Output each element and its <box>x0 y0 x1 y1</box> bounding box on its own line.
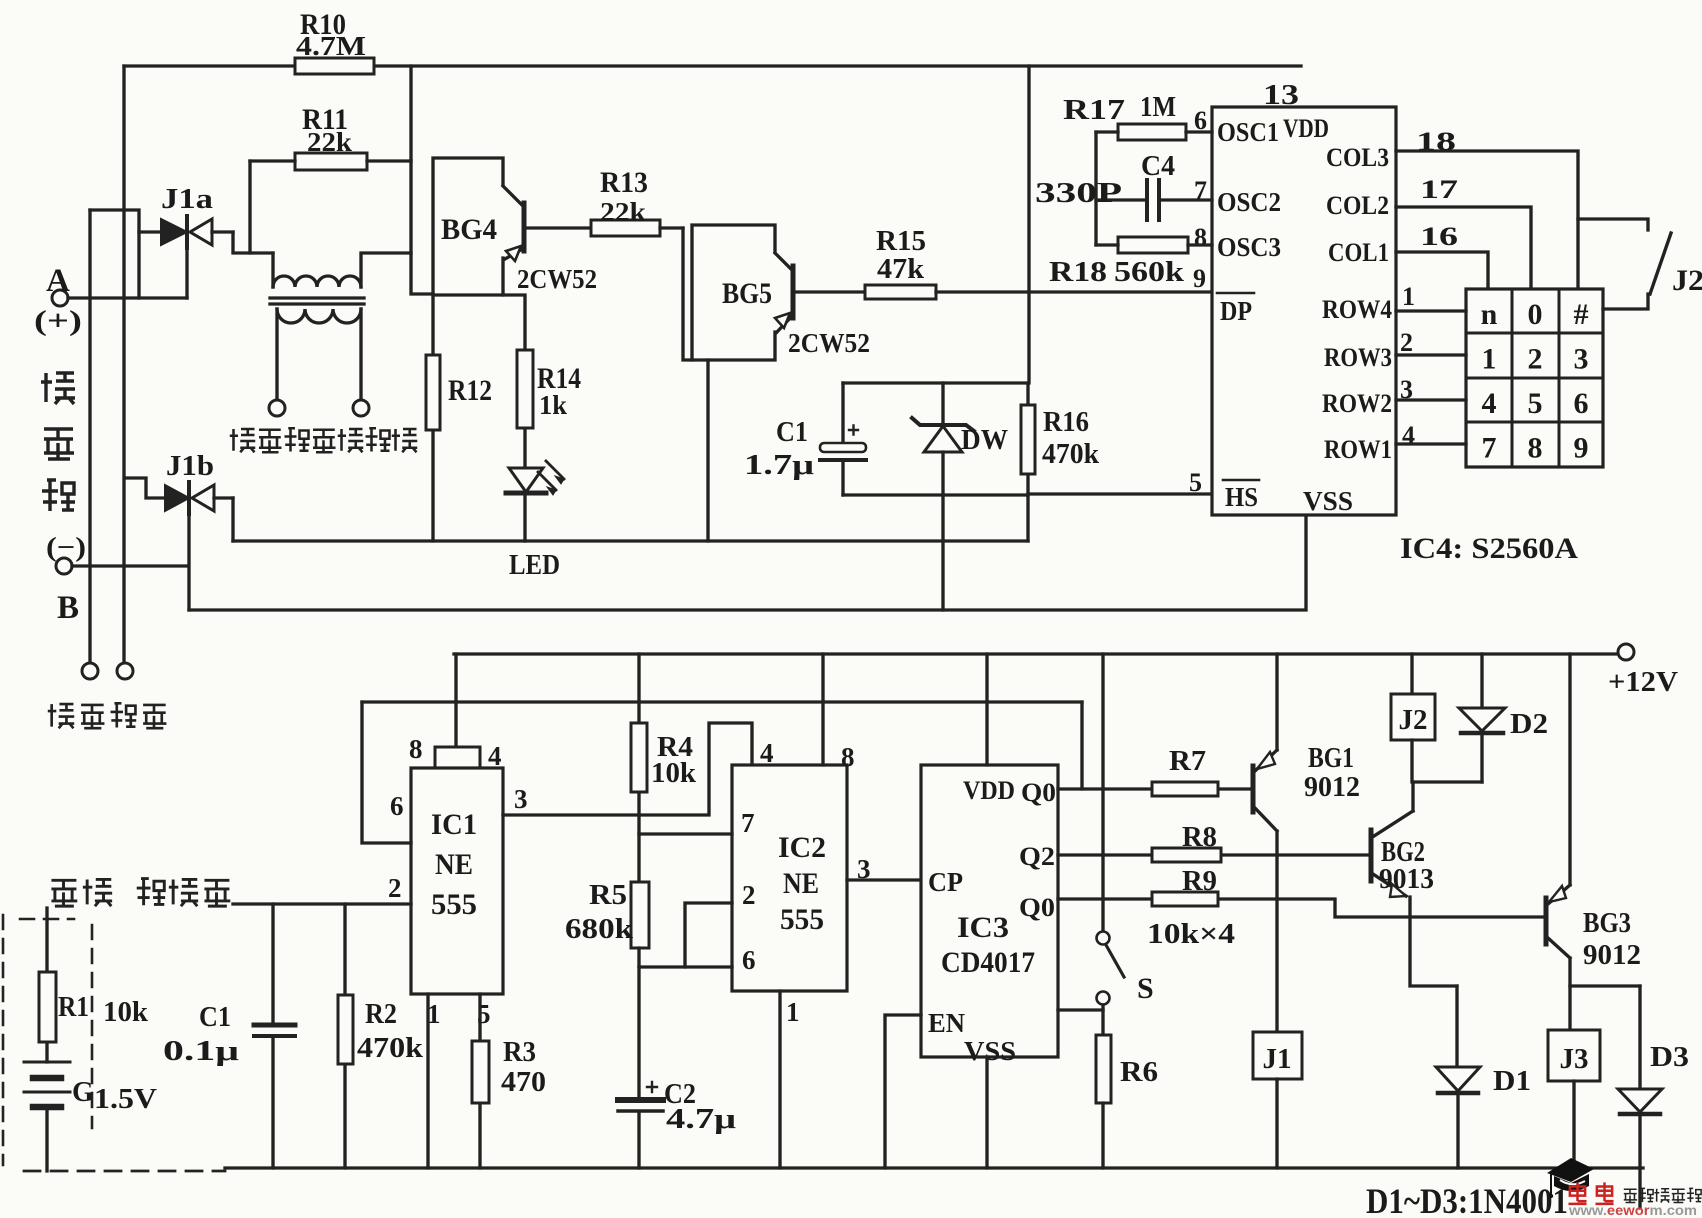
watermark: 虫虫 red characters <box>1568 1182 1613 1204</box>
svg-text:(+): (+) <box>34 305 82 337</box>
svg-text:1M: 1M <box>1140 92 1176 123</box>
resistor R16 <box>1021 383 1099 541</box>
transistor BG3 9012 <box>1546 654 1641 1030</box>
resistor R11 <box>250 103 411 170</box>
pin 5 label of IC1 <box>477 999 491 1029</box>
capacitor C2 4.7u (electrolytic) <box>618 1079 736 1168</box>
svg-text:IC2: IC2 <box>778 831 826 864</box>
wire: IC2 pin 3 to IC3 CP <box>847 878 921 881</box>
svg-text:R9: R9 <box>1182 866 1217 897</box>
pin 7 label of IC2 <box>741 808 755 838</box>
svg-text:J2: J2 <box>1399 704 1428 736</box>
svg-text:R8: R8 <box>1182 822 1217 853</box>
wire: IC3 reset stub to switch S <box>1058 1008 1103 1011</box>
pin 4 label of IC4 <box>1402 421 1415 450</box>
diode D2 <box>1459 654 1548 782</box>
svg-text:1.7μ: 1.7μ <box>744 450 814 481</box>
svg-text:J2: J2 <box>1672 264 1702 297</box>
wire: COL3 to keypad column 3 <box>1396 151 1578 288</box>
wire: IC1 pin 6 from secondary rail <box>362 702 411 843</box>
svg-text:9013: 9013 <box>1379 863 1434 895</box>
pin 17 label of IC4 <box>1420 175 1458 204</box>
terminal +12V <box>1608 644 1678 698</box>
svg-text:NE: NE <box>435 848 473 881</box>
wire: VSS return line to IC4 <box>189 515 1306 610</box>
svg-text:8: 8 <box>841 742 855 772</box>
capacitor C1 1.7u (electrolytic) <box>744 383 866 495</box>
svg-text:R5: R5 <box>589 880 627 911</box>
svg-text:R16: R16 <box>1043 407 1089 438</box>
svg-text:9012: 9012 <box>1304 771 1360 803</box>
dashed enclosure: 附件 accessory box <box>3 915 225 1171</box>
svg-text:J3: J3 <box>1560 1043 1589 1075</box>
resistor R1 <box>39 908 148 1062</box>
pin 1 label of IC4 <box>1402 282 1415 311</box>
svg-text:2: 2 <box>1528 343 1543 376</box>
resistor R12 <box>426 295 492 541</box>
pin 18 label of IC4 <box>1416 127 1456 156</box>
resistor R2 <box>338 904 423 1168</box>
svg-text:R2: R2 <box>365 999 397 1030</box>
transformer T core <box>270 298 364 304</box>
svg-text:1: 1 <box>1482 343 1497 376</box>
label: diode types D1~D3 1N4001 <box>1366 1181 1568 1218</box>
pin 7 label of IC4 <box>1194 176 1207 205</box>
switch S <box>1097 654 1154 1035</box>
resistor R4 <box>631 654 696 882</box>
pin 9 label of IC4 <box>1193 264 1206 293</box>
wire: LED rail (long horizontal) <box>233 539 1028 542</box>
pin 6 label of IC1 <box>390 791 404 821</box>
svg-text:LED: LED <box>509 550 560 581</box>
wire: terminal bracket top and right <box>90 210 139 298</box>
svg-text:ROW2: ROW2 <box>1322 389 1392 418</box>
svg-text:R1: R1 <box>58 992 89 1023</box>
svg-text:C1: C1 <box>199 1002 231 1033</box>
label: 接电话机 (to telephone) <box>48 703 167 728</box>
wire: R13 output down to BG5 box <box>683 228 692 360</box>
wire: +12V supply rail <box>454 652 1618 655</box>
svg-text:0: 0 <box>1528 298 1543 331</box>
resistor R14 <box>503 295 581 468</box>
svg-text:4: 4 <box>760 738 774 768</box>
watermark: 电子下载站 site name <box>1624 1188 1702 1202</box>
svg-text:10k: 10k <box>103 997 148 1028</box>
wire: IC3 EN to ground rail <box>885 1015 921 1168</box>
svg-text:0.1μ: 0.1μ <box>163 1036 239 1067</box>
svg-text:DW: DW <box>961 425 1008 456</box>
svg-text:2: 2 <box>1400 328 1413 357</box>
svg-text:BG1: BG1 <box>1308 742 1354 774</box>
svg-text:6: 6 <box>1574 387 1589 420</box>
wire: alarm line into IC1 pin 2 <box>233 902 411 905</box>
svg-text:ROW4: ROW4 <box>1322 295 1392 324</box>
watermark: graduation cap logo <box>1547 1158 1594 1198</box>
svg-text:C1: C1 <box>776 417 808 448</box>
svg-text:470: 470 <box>501 1067 546 1098</box>
svg-text:22k: 22k <box>600 197 646 227</box>
transformer T primary winding <box>273 253 411 287</box>
capacitor C1 0.1u (alarm filter) <box>163 904 295 1168</box>
wire: J1a output step down to transformer primary <box>233 232 273 253</box>
svg-text:10k: 10k <box>651 758 696 789</box>
svg-text:555: 555 <box>780 903 824 936</box>
wire: Q0 output row <box>1058 787 1251 790</box>
svg-text:COL1: COL1 <box>1328 238 1389 267</box>
svg-text:7: 7 <box>741 808 755 838</box>
svg-text:680k: 680k <box>565 914 633 945</box>
wire: secondary supply rail <box>362 700 1082 703</box>
label: 接线路 (to phone line) vertical text <box>41 373 75 511</box>
svg-text:ROW1: ROW1 <box>1324 435 1392 464</box>
wire: IC2 pin 1 to ground rail <box>778 991 781 1168</box>
resistor R6 <box>1096 1035 1158 1168</box>
relay contact J1b <box>125 450 233 514</box>
wire: IC2 pin 8 to +12V rail <box>821 654 824 765</box>
wire: IC2 pin 6 from R5/C2 node <box>639 965 732 968</box>
svg-text:8: 8 <box>409 734 423 764</box>
svg-text:10k×4: 10k×4 <box>1147 918 1235 950</box>
svg-text:EN: EN <box>928 1008 965 1038</box>
svg-text:6: 6 <box>742 945 756 975</box>
svg-text:3: 3 <box>514 784 528 814</box>
svg-text:BG5: BG5 <box>722 277 772 310</box>
wire: IC3 VSS to ground rail <box>985 1057 988 1168</box>
svg-text:1.5V: 1.5V <box>94 1084 157 1115</box>
svg-text:n: n <box>1481 298 1498 331</box>
svg-text:VDD: VDD <box>963 776 1015 805</box>
wire: snubber top rail <box>843 381 1028 384</box>
svg-text:CP: CP <box>928 867 963 897</box>
svg-text:G: G <box>72 1077 94 1108</box>
wire: COL1 to keypad column 1 <box>1396 252 1488 288</box>
svg-text:VSS: VSS <box>1303 486 1353 516</box>
svg-text:16: 16 <box>1420 222 1458 251</box>
pin 4 label of IC2 <box>760 738 774 768</box>
wire: BG3 collector branch to D3 <box>1570 984 1640 987</box>
relay coil J3 <box>1548 1030 1600 1168</box>
wire: oscillator left bus <box>1094 132 1097 245</box>
svg-text:A: A <box>46 263 70 299</box>
svg-text:J1: J1 <box>1263 1043 1292 1075</box>
wire: vertical bus x=1029 from top line to snubber rail <box>1027 66 1030 383</box>
svg-text:1: 1 <box>1402 282 1415 311</box>
svg-text:R12: R12 <box>448 374 492 407</box>
resistor R15 <box>865 226 936 299</box>
svg-text:2: 2 <box>388 873 402 903</box>
svg-text:B: B <box>57 590 79 626</box>
wire: HS line from R16 node to IC4 pin 5 <box>1028 492 1212 495</box>
pin 8 label of IC2 <box>841 742 855 772</box>
pin 8 label of IC1 <box>409 734 423 764</box>
resistor R8 <box>1152 822 1221 862</box>
IC U1 NE555 <box>411 747 503 994</box>
svg-text:4: 4 <box>488 741 502 771</box>
wire: J1a center tap down to node A line <box>185 248 188 298</box>
keypad matrix <box>1466 289 1603 467</box>
pin 5 label of IC4 <box>1189 468 1202 497</box>
wire: Q0 row branch to secondary rail <box>1080 702 1083 789</box>
svg-text:OSC3: OSC3 <box>1217 232 1281 262</box>
wire: Q0' output row to BG3 base <box>1058 899 1544 917</box>
svg-text:IC3: IC3 <box>957 911 1009 944</box>
transistor BG4 (with outline box) <box>433 158 597 295</box>
svg-text:2CW52: 2CW52 <box>788 328 870 358</box>
svg-text:D1~D3:1N4001: D1~D3:1N4001 <box>1366 1181 1568 1218</box>
pin 6 label of IC4 <box>1194 106 1207 135</box>
svg-text:3: 3 <box>1574 343 1589 376</box>
svg-text:7: 7 <box>1482 432 1497 465</box>
wire: top supply line of dialer section <box>124 64 1301 67</box>
svg-text:5: 5 <box>1528 387 1543 420</box>
relay coil J1 <box>1253 1032 1302 1168</box>
wire: Q2 output row <box>1058 853 1367 856</box>
IC U3 CD4017 <box>921 765 1058 1066</box>
svg-text:8: 8 <box>1528 432 1543 465</box>
svg-text:S: S <box>1137 972 1154 1005</box>
svg-text:470k: 470k <box>1042 439 1099 470</box>
resistor R3 on IC1 pin 5 <box>472 994 546 1168</box>
pin 1 label of IC1 <box>427 999 441 1029</box>
resistor R10 <box>295 8 374 74</box>
label: IC4 part number <box>1400 532 1578 565</box>
transistor BG2 9013 <box>1371 782 1457 986</box>
watermark: site url <box>1568 1202 1697 1218</box>
svg-text:22k: 22k <box>307 127 352 157</box>
svg-text:2CW52: 2CW52 <box>517 264 597 294</box>
svg-text:R13: R13 <box>600 166 648 199</box>
pin 1 label of IC2 <box>786 997 800 1027</box>
label: resistor group value 10k x 4 <box>1147 918 1235 950</box>
wire: BG5 box bottom to LED rail <box>706 360 709 541</box>
svg-text:13: 13 <box>1263 80 1299 111</box>
wire: terminal bracket left vertical (to phone terminal) <box>88 210 91 662</box>
relay contact J1a <box>139 183 233 248</box>
wire: ROW2 to keypad <box>1396 398 1466 401</box>
svg-text:NE: NE <box>783 867 819 900</box>
pin 2 label of IC1 <box>388 873 402 903</box>
wire: snubber bottom rail <box>843 493 1028 496</box>
pin 13 label of IC4 <box>1263 80 1299 111</box>
svg-text:1: 1 <box>786 997 800 1027</box>
svg-text:ROW3: ROW3 <box>1324 343 1392 372</box>
svg-text:1k: 1k <box>539 390 567 420</box>
pin 6 label of IC2 <box>742 945 756 975</box>
svg-text:C4: C4 <box>1141 151 1175 182</box>
svg-text:BG4: BG4 <box>441 213 497 246</box>
svg-text:R18: R18 <box>1049 257 1107 288</box>
svg-text:9012: 9012 <box>1583 939 1641 971</box>
wire: IC1 pin 1 to ground rail <box>426 994 429 1168</box>
svg-text:J1a: J1a <box>161 183 214 215</box>
IC U2 NE555 <box>732 765 847 991</box>
diode D3 <box>1618 986 1689 1208</box>
wire: IC1 pins 8/4 to +12V rail <box>454 654 457 747</box>
wire: IC3 VDD to +12V rail <box>985 654 988 765</box>
svg-text:17: 17 <box>1420 175 1458 204</box>
terminal B <box>46 532 188 626</box>
wire: R11 left lead down to J1a output node <box>248 161 251 253</box>
diode D1 <box>1436 986 1531 1168</box>
svg-text:VSS: VSS <box>964 1036 1016 1066</box>
svg-text:OSC1: OSC1 <box>1217 117 1279 147</box>
svg-text:4.7M: 4.7M <box>296 31 366 61</box>
svg-text:J1b: J1b <box>166 450 214 482</box>
pin 2 label of IC4 <box>1400 328 1413 357</box>
svg-text:4: 4 <box>1482 387 1497 420</box>
wire: IC1 pin 3 to R4 node and IC2 pin 4 <box>503 723 752 815</box>
svg-text:D2: D2 <box>1510 708 1548 740</box>
switch J2 (hook switch) <box>1578 219 1702 309</box>
svg-text:8: 8 <box>1194 223 1207 252</box>
transistor BG5 (with outline box) <box>692 225 870 360</box>
IC U4 S2560A dialer <box>1212 107 1396 516</box>
svg-text:DP: DP <box>1220 296 1252 326</box>
wire: vertical bus x=411 from top line to transformer/BG4 <box>411 66 433 294</box>
wire: COL2 to keypad column 2 <box>1396 207 1531 288</box>
svg-text:R3: R3 <box>503 1037 536 1068</box>
wire: ROW3 to keypad <box>1396 353 1466 356</box>
label: 报警线 (alarm line) <box>137 879 231 907</box>
pin 16 label of IC4 <box>1420 222 1458 251</box>
svg-text:Q2: Q2 <box>1019 842 1055 871</box>
svg-text:HS: HS <box>1225 482 1258 512</box>
svg-text:www.eeworm.com: www.eeworm.com <box>1568 1202 1697 1218</box>
resistor R17 <box>1063 92 1212 140</box>
capacitor C4 330P <box>1035 151 1212 220</box>
svg-text:D1: D1 <box>1493 1065 1531 1097</box>
pin 3 label of IC2 <box>857 854 871 884</box>
svg-text:R15: R15 <box>876 226 926 257</box>
wire: BG5 collector line to IC4 pin 9 (DP) <box>936 290 1212 293</box>
svg-text:COL2: COL2 <box>1326 191 1389 220</box>
wire: ROW1 to keypad <box>1396 442 1466 445</box>
label: 附件 (accessory) <box>51 879 112 906</box>
svg-text:COL3: COL3 <box>1326 143 1389 172</box>
transistor BG1 9012 <box>1253 654 1360 1032</box>
terminal A <box>34 263 187 337</box>
svg-text:VDD: VDD <box>1283 114 1329 143</box>
svg-text:330P: 330P <box>1035 178 1122 209</box>
svg-text:5: 5 <box>1189 468 1202 497</box>
transformer T secondary winding <box>277 309 361 400</box>
wire: ROW4 to keypad <box>1396 309 1466 312</box>
recorder output terminals <box>269 400 369 416</box>
LED indicator <box>506 461 564 581</box>
svg-text:BG3: BG3 <box>1583 907 1631 939</box>
battery G 1.5V <box>24 1062 157 1171</box>
wire: ground rail <box>225 1166 1643 1169</box>
wire: left vertical from top line down through node A to phone terminal <box>122 66 125 662</box>
svg-text:#: # <box>1574 298 1589 331</box>
resistor R7 <box>1152 746 1218 796</box>
svg-text:+12V: +12V <box>1608 666 1678 698</box>
pin 3 label of IC4 <box>1400 375 1413 404</box>
svg-text:CD4017: CD4017 <box>941 946 1035 979</box>
pin 4 label of IC1 <box>488 741 502 771</box>
svg-text:6: 6 <box>390 791 404 821</box>
svg-text:OSC2: OSC2 <box>1217 187 1281 217</box>
pin 3 label of IC1 <box>514 784 528 814</box>
wire: J1b center tap down to VSS return line <box>187 514 190 610</box>
pin 2 label of IC2 <box>742 880 756 910</box>
svg-text:470k: 470k <box>357 1033 423 1064</box>
svg-text:555: 555 <box>431 888 477 921</box>
svg-text:2: 2 <box>742 880 756 910</box>
svg-text:R17: R17 <box>1063 95 1125 126</box>
svg-text:R7: R7 <box>1169 746 1206 777</box>
resistor R13 <box>591 166 683 236</box>
svg-text:560k: 560k <box>1114 257 1185 288</box>
resistor R18 <box>1049 237 1212 288</box>
svg-text:D3: D3 <box>1650 1041 1689 1073</box>
wire: DW anode down to VSS return line <box>941 452 944 610</box>
svg-text:R6: R6 <box>1120 1056 1158 1088</box>
svg-text:9: 9 <box>1193 264 1206 293</box>
svg-text:(−): (−) <box>46 532 86 562</box>
label: 接录音机输出 (to recorder output) <box>230 428 418 452</box>
wire: IC2 pin 2 loop to pin 6 <box>685 903 732 967</box>
svg-text:IC4: S2560A: IC4: S2560A <box>1400 532 1578 565</box>
svg-text:IC1: IC1 <box>431 808 477 841</box>
pin 8 label of IC4 <box>1194 223 1207 252</box>
zener diode DW <box>912 383 1008 456</box>
wire: IC2 pin 7 stub <box>639 832 732 835</box>
phone connection terminals <box>82 663 133 679</box>
svg-text:Q0: Q0 <box>1021 778 1056 807</box>
wire: J1b output down to LED rail <box>231 498 234 541</box>
svg-text:4.7μ: 4.7μ <box>666 1104 736 1135</box>
svg-text:Q0: Q0 <box>1019 893 1055 922</box>
resistor R5 <box>565 880 649 1098</box>
svg-text:47k: 47k <box>877 254 924 285</box>
resistor R9 <box>1152 866 1218 906</box>
relay coil J2 <box>1391 654 1482 782</box>
svg-text:9: 9 <box>1574 432 1589 465</box>
